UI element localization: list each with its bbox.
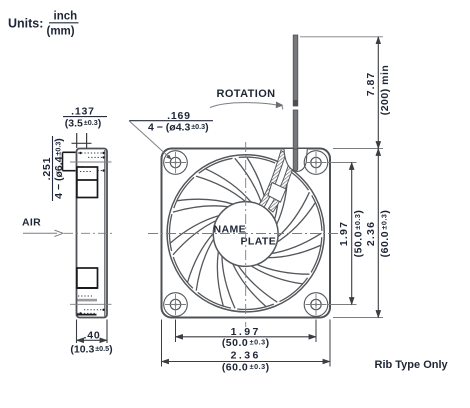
wire clamp patch <box>268 183 286 203</box>
svg-text:.40: .40 <box>84 330 101 342</box>
dimension 1.97 (50.0 +-0.3) right <box>338 163 364 305</box>
fan blade 3 <box>274 164 308 225</box>
svg-text:Rib Type Only: Rib Type Only <box>375 359 449 371</box>
units label <box>8 11 79 38</box>
fan blade 1 <box>196 158 251 202</box>
fan blade 8 <box>198 250 235 309</box>
fan blade 9 <box>173 232 214 290</box>
mounting hole bottom-right <box>304 293 328 317</box>
fan blade 7 <box>232 262 278 310</box>
lead wire channel: right hatched wire <box>269 156 297 213</box>
extension line hole right top <box>328 162 357 164</box>
lead wire channel: left hatched wire <box>259 151 286 209</box>
bottom extension lines <box>175 320 177 343</box>
side view boss section (top) <box>77 167 98 198</box>
wire entry collar <box>284 147 307 171</box>
counterbore extension bracket <box>63 152 76 170</box>
hub circle / name plate <box>213 202 278 267</box>
mounting hole top-left <box>164 151 188 175</box>
extension line hole right bottom <box>328 304 357 306</box>
fan blade 5 <box>266 233 322 272</box>
svg-text:(200) min: (200) min <box>379 65 391 116</box>
side view hole centerline (top) <box>70 161 112 163</box>
svg-text:(50.0 ±0.3): (50.0 ±0.3) <box>352 210 364 258</box>
side view boss section (bottom) <box>77 268 105 315</box>
dimension 1.97 (50.0 +-0.3) bottom <box>176 326 317 349</box>
svg-text:(60.0 ±0.3): (60.0 ±0.3) <box>222 362 270 374</box>
svg-text:inch: inch <box>54 11 78 23</box>
svg-text:.251: .251 <box>41 157 53 181</box>
fan frame front view <box>162 149 331 318</box>
extension line fan bottom edge right <box>333 317 383 319</box>
dimension 2.36 (60.0 +-0.3) right <box>365 149 391 318</box>
AIR flow arrow <box>23 230 115 236</box>
svg-text:(3.5 ±0.3): (3.5 ±0.3) <box>65 118 101 130</box>
mounting hole top-right <box>304 151 328 175</box>
rotation direction arrow <box>210 102 284 110</box>
side view body <box>77 149 108 318</box>
fan blade 6 <box>249 264 309 302</box>
lead wire channel white underlay <box>259 151 297 213</box>
fan blade 2 <box>235 157 275 210</box>
svg-text:7.87: 7.87 <box>365 72 377 96</box>
svg-text:4 − (ø4.3 ±0.3): 4 − (ø4.3 ±0.3) <box>148 122 209 134</box>
svg-text:2.36: 2.36 <box>365 221 377 246</box>
fan blade 10 <box>169 214 219 255</box>
svg-text:1.97: 1.97 <box>338 221 350 246</box>
extension line fan top edge right <box>333 148 383 150</box>
hub centerlines <box>148 142 340 327</box>
svg-text:.137: .137 <box>71 106 95 118</box>
dimension .251 4-(dia6.4 +-0.3) rotated <box>41 136 65 201</box>
svg-text:Units:: Units: <box>8 17 43 31</box>
fan blade 4 <box>276 192 322 243</box>
dimension .169 4-(dia4.3 +-0.3) leader <box>129 110 213 160</box>
side view hole centerline (bottom) <box>70 303 112 305</box>
svg-text:AIR: AIR <box>22 217 41 229</box>
venturi opening circle <box>167 155 324 312</box>
dimension .137 (3.5 +-0.3) flange <box>63 106 107 149</box>
extension line wire top <box>300 36 383 38</box>
dimension .40 (10.3 +-0.5) thickness <box>70 320 112 356</box>
svg-text:ROTATION: ROTATION <box>217 88 276 100</box>
side view hidden hole lines (top) <box>78 152 105 172</box>
mounting hole bottom-left <box>164 293 188 317</box>
svg-text:(10.3 ±0.5): (10.3 ±0.5) <box>70 343 112 355</box>
svg-text:(50.0 ±0.3): (50.0 ±0.3) <box>222 337 270 349</box>
dimension 2.36 (60.0 +-0.3) bottom <box>162 349 331 373</box>
fan blade 11 <box>173 177 234 212</box>
svg-text:2.36: 2.36 <box>231 349 261 361</box>
dimension 7.87 (200) min wire length <box>365 37 391 149</box>
svg-text:(60.0 ±0.3): (60.0 ±0.3) <box>379 210 391 258</box>
lead wire <box>293 35 298 149</box>
svg-text:(mm): (mm) <box>47 26 75 38</box>
